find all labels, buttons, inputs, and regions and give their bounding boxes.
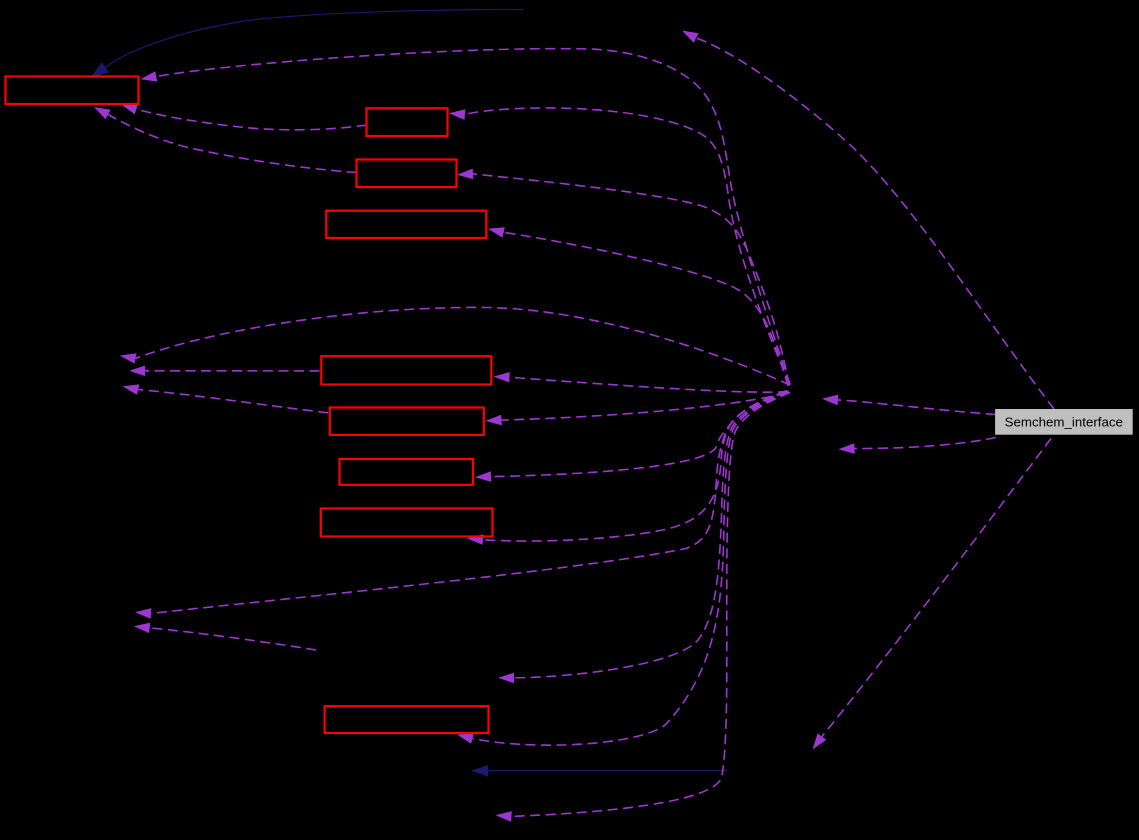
edge hub to B4 [488,227,788,386]
edge B6 to left node [123,384,329,412]
node B1 [6,77,139,105]
edge hub to bottom node 3 [496,393,791,822]
edge hub to bottom node 1 [498,392,789,684]
edge Semchem_interface to top node [682,31,1054,410]
node B3 [357,160,457,188]
edge Semchem_interface to hub lower [839,438,996,454]
edge Semchem_interface to bottom right node [813,439,1052,750]
edge Semchem_interface to hub upper [822,395,996,415]
edge hub to B7 [475,391,787,482]
node B2 [367,108,448,136]
node B5 [321,356,491,384]
node B7 [340,459,474,485]
node B9 [325,706,489,733]
edge hub to lower left node [135,391,788,619]
edge B5 to left node [129,366,319,377]
edge hub to left node arc [120,307,790,385]
edge invisible to bottom node 2 (inheritance) [471,765,727,777]
edge hub to B5 [494,372,789,392]
edge hub to B1 right [141,49,791,384]
edge hub to B3 [457,169,789,385]
edge hub to B8 [467,392,787,545]
svg-text:Semchem_interface: Semchem_interface [1005,415,1123,430]
node Semchem_interface [996,410,1133,435]
edge invisible to B1 top (inheritance) [91,9,524,77]
edge hub to B6 [486,393,787,425]
node B8 [321,509,493,537]
edge B2 to B1 bottom [121,104,367,130]
edge hub to B9 [457,392,789,745]
node B6 [330,408,484,435]
node B4 [326,211,486,238]
edge B3 to B1 bottom [94,107,357,173]
edge hub to B2 [449,108,790,385]
edge invisible to lower left node [134,623,316,650]
